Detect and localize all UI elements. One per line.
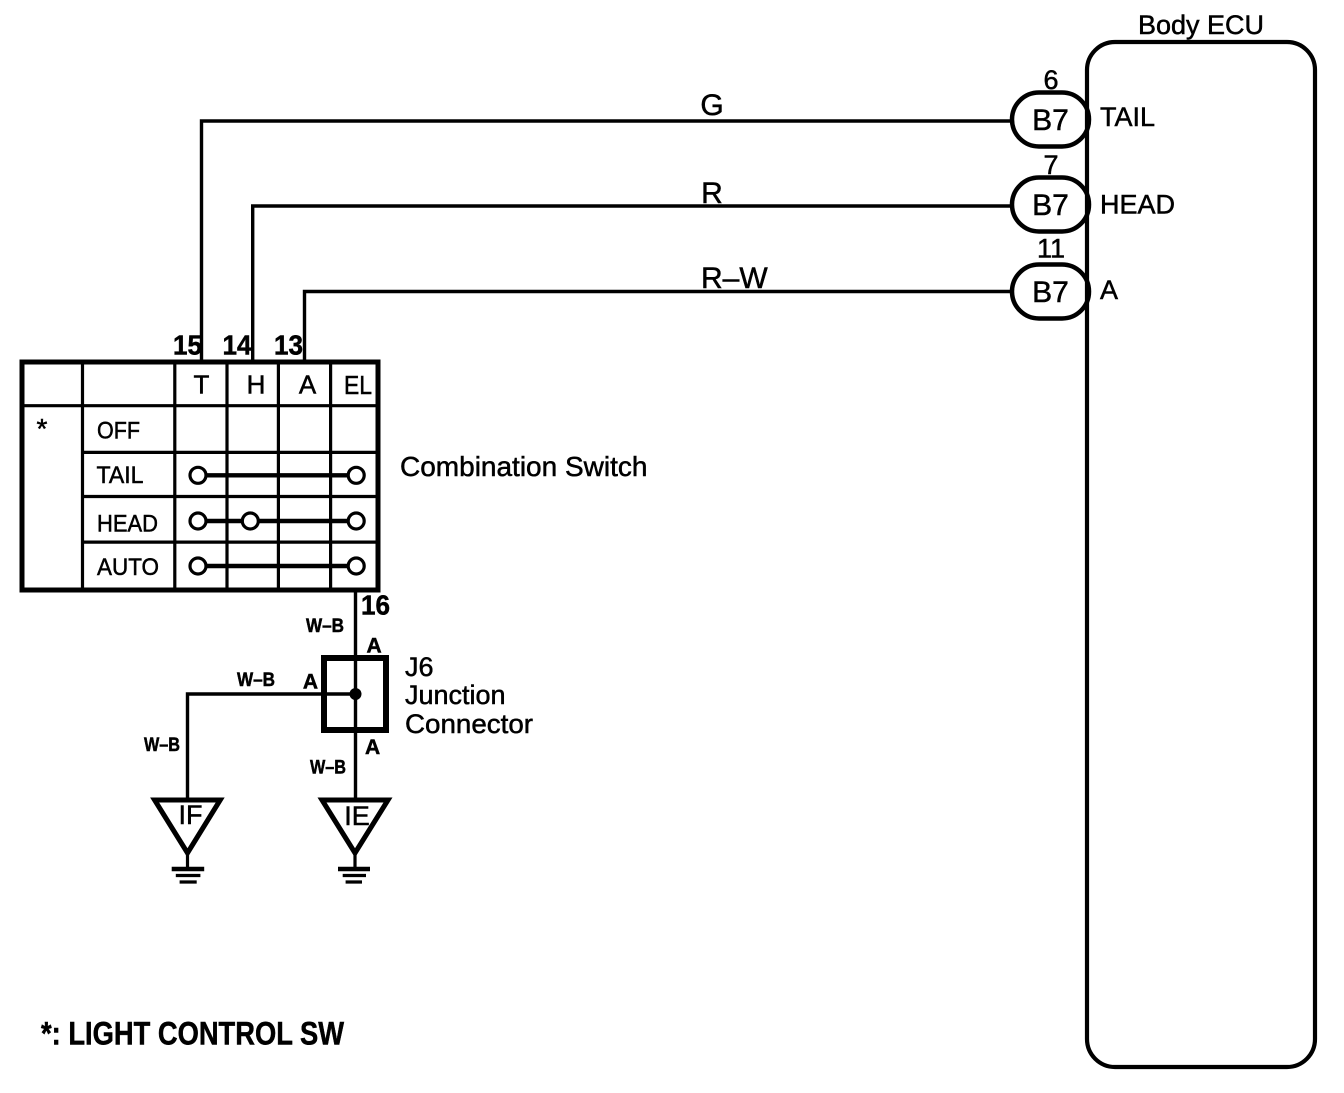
svg-text:T: T bbox=[194, 370, 210, 400]
svg-text:14: 14 bbox=[223, 330, 252, 361]
ECU pin label HEAD bbox=[1100, 190, 1175, 220]
row label HEAD bbox=[97, 511, 158, 538]
svg-text:11: 11 bbox=[1037, 234, 1065, 264]
svg-text:W–B: W–B bbox=[237, 670, 275, 691]
asterisk cell bbox=[37, 413, 48, 444]
svg-text:A: A bbox=[1100, 275, 1118, 305]
svg-text:IE: IE bbox=[344, 801, 370, 831]
junction connector J6 box bbox=[324, 658, 386, 730]
svg-text:A: A bbox=[367, 635, 382, 658]
pin 14 bbox=[223, 330, 252, 361]
svg-text:OFF: OFF bbox=[97, 418, 140, 445]
label A below junction bbox=[365, 736, 380, 759]
label Body ECU bbox=[1138, 10, 1264, 40]
svg-text:TAIL: TAIL bbox=[97, 462, 144, 489]
Body ECU box bbox=[1087, 42, 1315, 1067]
label W-B left vertical bbox=[144, 735, 180, 756]
pin 7 bbox=[1043, 150, 1058, 180]
svg-text:B7: B7 bbox=[1032, 104, 1069, 137]
svg-text:Combination Switch: Combination Switch bbox=[400, 451, 647, 482]
svg-text:HEAD: HEAD bbox=[1100, 190, 1175, 220]
svg-text:AUTO: AUTO bbox=[97, 554, 159, 581]
svg-text:EL: EL bbox=[344, 370, 372, 400]
footnote LIGHT CONTROL SW bbox=[41, 1016, 345, 1052]
svg-text:R–W: R–W bbox=[701, 262, 768, 295]
row label TAIL bbox=[97, 462, 144, 489]
svg-text:A: A bbox=[299, 370, 317, 400]
ECU pin label TAIL bbox=[1100, 102, 1155, 132]
label A above junction bbox=[367, 635, 382, 658]
svg-text:H: H bbox=[247, 370, 266, 400]
wire R from combination switch H to Body ECU HEAD bbox=[253, 206, 1014, 362]
pin 13 bbox=[274, 330, 303, 361]
svg-text:16: 16 bbox=[361, 590, 390, 621]
svg-text:W–B: W–B bbox=[306, 616, 344, 637]
pin 16 bbox=[361, 590, 390, 621]
connector oval B7 pin 11 A bbox=[1012, 265, 1089, 319]
svg-text:TAIL: TAIL bbox=[1100, 102, 1155, 132]
svg-text:*: LIGHT CONTROL SW: *: LIGHT CONTROL SW bbox=[41, 1016, 345, 1052]
pin 11 bbox=[1037, 234, 1065, 264]
ground under IE bbox=[338, 853, 370, 882]
table header T bbox=[194, 370, 210, 400]
label G bbox=[700, 89, 723, 122]
svg-text:IF: IF bbox=[179, 800, 203, 830]
junction node dot bbox=[350, 688, 362, 700]
svg-text:*: * bbox=[37, 413, 48, 444]
label R bbox=[701, 177, 723, 210]
HEAD row contact bar bbox=[190, 513, 364, 529]
ECU pin label A bbox=[1100, 275, 1118, 305]
connector IE bbox=[322, 800, 388, 853]
svg-text:Connector: Connector bbox=[405, 709, 533, 739]
svg-text:7: 7 bbox=[1043, 150, 1058, 180]
svg-text:W–B: W–B bbox=[144, 735, 180, 756]
connector oval B7 pin 6 TAIL bbox=[1012, 93, 1089, 147]
wire G from combination switch T to Body ECU TAIL bbox=[202, 121, 1015, 362]
AUTO row contact bar bbox=[190, 558, 364, 574]
label Combination Switch bbox=[400, 451, 647, 482]
label A left of junction bbox=[303, 671, 318, 694]
TAIL row contact bar bbox=[190, 467, 364, 483]
svg-text:B7: B7 bbox=[1032, 189, 1069, 222]
svg-text:Junction: Junction bbox=[405, 680, 506, 710]
svg-text:HEAD: HEAD bbox=[97, 511, 158, 538]
row label OFF bbox=[97, 418, 140, 445]
wire W-B from J6 left to IF bbox=[188, 694, 356, 800]
wire R-W from combination switch A to Body ECU A bbox=[305, 292, 1015, 363]
svg-text:15: 15 bbox=[173, 330, 202, 361]
svg-text:B7: B7 bbox=[1032, 276, 1069, 309]
table header A bbox=[299, 370, 317, 400]
wire W-B from EL pin 16 down through J6 to IE bbox=[354, 590, 357, 800]
label W-B upper bbox=[306, 616, 344, 637]
label J6 Junction Connector bbox=[405, 652, 533, 739]
svg-text:Body ECU: Body ECU bbox=[1138, 10, 1264, 40]
svg-text:R: R bbox=[701, 177, 723, 210]
pin 15 bbox=[173, 330, 202, 361]
svg-text:13: 13 bbox=[274, 330, 303, 361]
pin 6 bbox=[1043, 65, 1058, 95]
table header EL bbox=[344, 370, 372, 400]
svg-text:W–B: W–B bbox=[310, 758, 346, 779]
connector oval B7 pin 7 HEAD bbox=[1012, 178, 1089, 232]
svg-text:G: G bbox=[700, 89, 723, 122]
svg-text:J6: J6 bbox=[405, 652, 434, 682]
label R-W bbox=[701, 262, 768, 295]
svg-text:6: 6 bbox=[1043, 65, 1058, 95]
connector IF bbox=[155, 800, 221, 853]
combination switch table frame bbox=[22, 362, 378, 590]
ground under IF bbox=[172, 853, 205, 882]
svg-text:A: A bbox=[303, 671, 318, 694]
row label AUTO bbox=[97, 554, 159, 581]
table header H bbox=[247, 370, 266, 400]
label W-B left horizontal bbox=[237, 670, 275, 691]
svg-text:A: A bbox=[365, 736, 380, 759]
label W-B above IE bbox=[310, 758, 346, 779]
